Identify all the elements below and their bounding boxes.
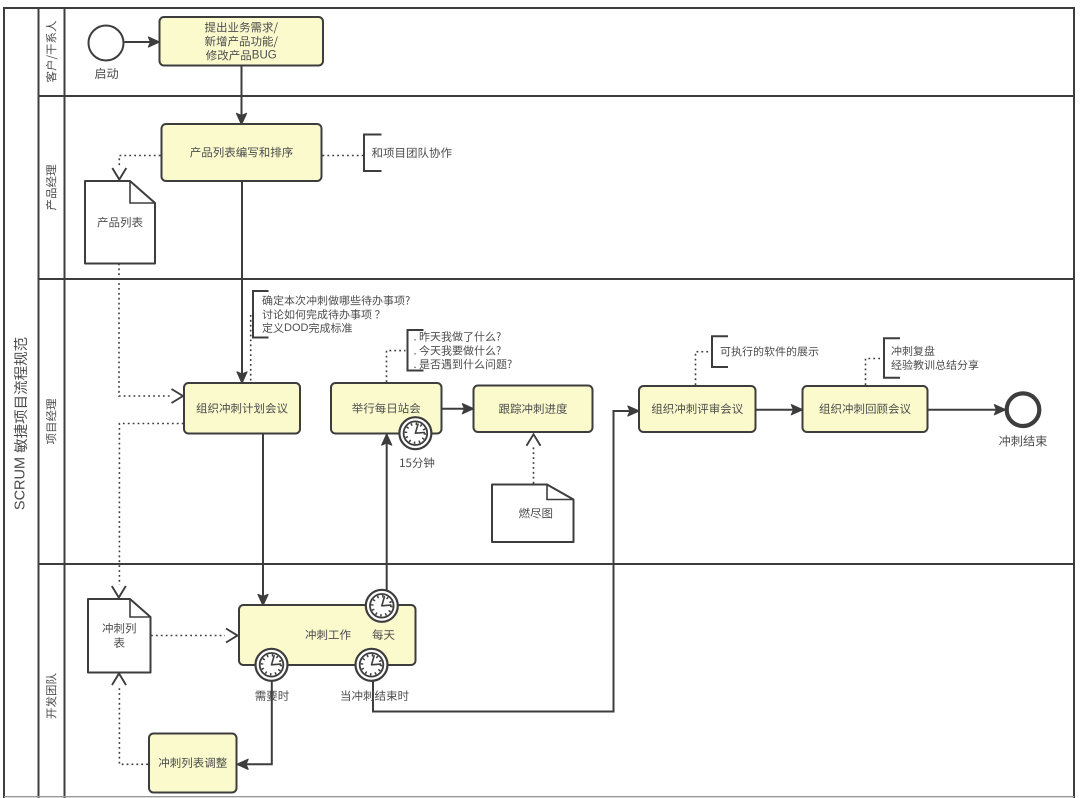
svg-text:可执行的软件的展示: 可执行的软件的展示 — [720, 344, 819, 360]
svg-text:跟踪冲刺进度: 跟踪冲刺进度 — [499, 401, 568, 417]
svg-text:冲刺结束: 冲刺结束 — [999, 432, 1048, 450]
svg-text:产品列表: 产品列表 — [97, 214, 143, 230]
svg-text:开发团队: 开发团队 — [44, 673, 60, 719]
svg-text:燃尽图: 燃尽图 — [519, 505, 554, 521]
svg-text:冲刺列表调整: 冲刺列表调整 — [158, 755, 227, 771]
svg-text:产品列表编写和排序: 产品列表编写和排序 — [190, 145, 294, 161]
svg-text:组织冲刺回顾会议: 组织冲刺回顾会议 — [819, 401, 911, 417]
svg-text:. 是否遇到什么问题?: . 是否遇到什么问题? — [414, 356, 513, 372]
svg-text:冲刺工作: 冲刺工作 — [305, 627, 351, 643]
svg-text:产品经理: 产品经理 — [44, 164, 60, 210]
svg-text:项目经理: 项目经理 — [44, 398, 60, 444]
svg-text:客户/干系人: 客户/干系人 — [44, 20, 60, 83]
svg-text:经验教训总结分享: 经验教训总结分享 — [891, 357, 979, 373]
svg-text:SCRUM 敏捷项目流程规范: SCRUM 敏捷项目流程规范 — [10, 337, 31, 510]
svg-text:表: 表 — [114, 635, 126, 651]
svg-text:定义DOD完成标准: 定义DOD完成标准 — [262, 320, 352, 336]
svg-text:组织冲刺评审会议: 组织冲刺评审会议 — [651, 401, 743, 417]
svg-text:15分钟: 15分钟 — [399, 455, 435, 471]
svg-text:当冲刺结束时: 当冲刺结束时 — [340, 688, 409, 704]
svg-text:启动: 启动 — [94, 64, 118, 82]
svg-text:每天: 每天 — [372, 627, 395, 643]
svg-text:举行每日站会: 举行每日站会 — [352, 400, 421, 416]
svg-text:修改产品BUG: 修改产品BUG — [206, 47, 277, 63]
svg-text:和项目团队协作: 和项目团队协作 — [372, 145, 453, 161]
svg-text:组织冲刺计划会议: 组织冲刺计划会议 — [196, 400, 288, 416]
